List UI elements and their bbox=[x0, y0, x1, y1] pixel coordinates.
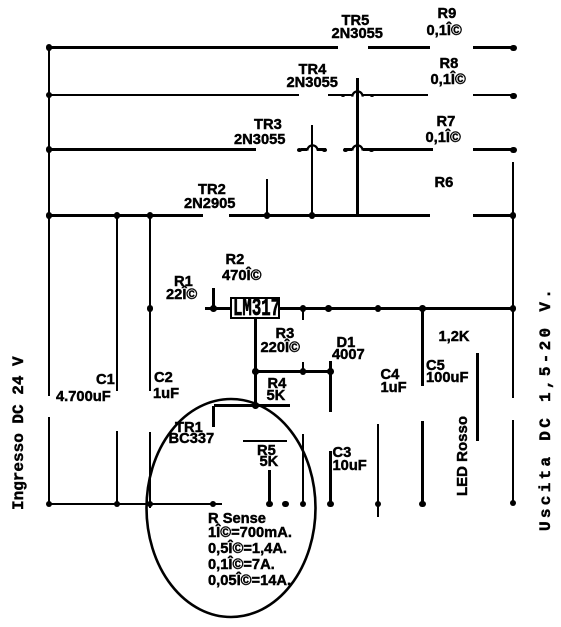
wire rail1 mid (TR5 emitter to R9) bbox=[368, 46, 430, 48]
node C2 / bottom rail bbox=[147, 501, 154, 508]
label TR1 value bbox=[169, 432, 215, 447]
label C1 value bbox=[56, 390, 111, 405]
node rail4 / bus bbox=[46, 212, 53, 219]
wire hop TR4 vertical over rail3 bbox=[352, 148, 362, 151]
label R8 value bbox=[431, 73, 466, 88]
label R sense line3 bbox=[208, 558, 275, 573]
capacitor C1 top lead bbox=[116, 215, 118, 391]
wire output bus lower bbox=[512, 420, 514, 505]
node R sense left bbox=[210, 501, 217, 508]
label R7 bbox=[437, 115, 456, 130]
node R7 terminal bbox=[510, 147, 517, 154]
label D1 bbox=[337, 336, 356, 351]
transistor TR4 vertical bbox=[356, 78, 358, 216]
label R7 value bbox=[426, 131, 461, 146]
wire nub bbox=[369, 148, 374, 152]
label TR3 bbox=[254, 118, 282, 133]
wire rail4 mid (TR2 emitter to R6) bbox=[229, 214, 431, 216]
svg-text:LM317: LM317 bbox=[233, 296, 280, 318]
node output row / bus bbox=[510, 305, 517, 312]
label Ingresso DC 24 V (vertical, input) bbox=[10, 356, 28, 510]
node R sense mid bbox=[282, 501, 289, 508]
node C1 / rail4 bbox=[114, 212, 121, 219]
label Uscita DC 1,5-20 V. (vertical, output) bbox=[538, 286, 554, 531]
node ADJ / row bbox=[252, 368, 259, 375]
node C4 / bottom bbox=[375, 501, 382, 508]
wire rail2 mid (TR4 emitter to R8) bbox=[328, 94, 428, 96]
wire LM317 output row bbox=[280, 307, 514, 309]
node R5 / bottom bbox=[266, 501, 273, 508]
capacitor C2 top lead bbox=[149, 215, 151, 391]
node branch / bottom bbox=[300, 501, 307, 508]
label R4 value bbox=[267, 389, 286, 404]
diode D1 lead bbox=[329, 361, 331, 412]
node TR2 / rail4 bbox=[264, 212, 271, 219]
label TR1 bbox=[175, 421, 203, 436]
label R1 bbox=[174, 275, 193, 290]
label C3 bbox=[333, 446, 352, 461]
label C2 value bbox=[153, 387, 179, 402]
node rail2 / bus bbox=[46, 92, 53, 99]
wire rail3 mid (TR3 emitter to R7) bbox=[344, 148, 434, 150]
wire rail2 left (to TR4 collector) bbox=[48, 94, 299, 96]
node R6 / output bus bbox=[510, 212, 517, 219]
label TR5 bbox=[342, 14, 370, 29]
wire R sense branch bbox=[302, 434, 304, 505]
resistor R8 right lead bbox=[473, 94, 513, 96]
label C3 value bbox=[333, 459, 367, 474]
node R1 / C2 input bbox=[147, 305, 154, 312]
node C3 / bottom bbox=[327, 501, 334, 508]
op-amp U1 LM317 regulator box bbox=[230, 297, 280, 319]
label TR3 value bbox=[234, 133, 285, 148]
wire input bus lower bbox=[48, 417, 50, 506]
wire nub bbox=[297, 148, 302, 152]
capacitor C3 lead bbox=[329, 451, 331, 505]
label TR4 bbox=[299, 63, 327, 78]
label TR2 bbox=[198, 183, 226, 198]
node D1 / output row bbox=[325, 305, 332, 312]
node output bottom bbox=[510, 500, 517, 507]
label R2 value bbox=[222, 269, 261, 284]
wire LM317 ADJ lead bbox=[254, 319, 256, 407]
label R sense line2 bbox=[208, 542, 287, 557]
label R sense title bbox=[208, 512, 266, 527]
resistor R2 lead stub bbox=[212, 288, 214, 310]
wire hop TR4 vertical over rail2 bbox=[352, 93, 362, 96]
node R9 terminal bbox=[510, 45, 517, 52]
label R8 bbox=[440, 57, 459, 72]
label R9 bbox=[438, 7, 457, 22]
label R sense line1 bbox=[208, 526, 292, 541]
label C2 bbox=[154, 371, 173, 386]
highlight ellipse around R sense bbox=[144, 397, 318, 621]
wire rail1 left (from input bus to TR5 collector) bbox=[48, 46, 338, 48]
wire rail3 mid stub bbox=[301, 148, 326, 150]
label C4 bbox=[381, 368, 400, 383]
wire rail3 left (to TR3 collector) bbox=[48, 148, 256, 150]
label C5 bbox=[426, 359, 445, 374]
capacitor C1 bottom lead bbox=[116, 431, 118, 505]
wire nub bbox=[341, 94, 346, 98]
capacitor C5 bottom lead bbox=[421, 421, 423, 506]
label R6 value 1,2K bbox=[439, 330, 470, 345]
node R3 / output row bbox=[300, 305, 307, 312]
resistor R4 row wire bbox=[214, 404, 291, 406]
node bottom-left bbox=[46, 501, 53, 508]
node input top-left bbox=[46, 44, 53, 51]
label LED Rosso (vertical) bbox=[455, 416, 470, 496]
wire input bus upper bbox=[48, 47, 50, 396]
wire bottom rail (R sense left) bbox=[48, 503, 222, 505]
capacitor C4 lead bbox=[377, 424, 379, 517]
transistor TR3 vertical bbox=[311, 125, 313, 216]
label R5 value bbox=[260, 455, 279, 470]
label LM317 bbox=[233, 296, 280, 318]
capacitor C5 top lead bbox=[421, 309, 423, 387]
transistor TR1 base lead bbox=[212, 406, 214, 427]
resistor R5 bottom lead bbox=[268, 470, 270, 505]
node C1 / bottom rail bbox=[114, 501, 121, 508]
label R sense line4 bbox=[208, 574, 291, 589]
node R3 / ADJ row bbox=[300, 368, 307, 375]
node D1 / ADJ row bbox=[327, 368, 334, 375]
wire nub bbox=[370, 94, 375, 98]
label R3 value bbox=[261, 341, 300, 356]
wire nub bbox=[343, 148, 348, 152]
capacitor C2 bottom lead bbox=[149, 432, 151, 508]
node ADJ / R4 row bbox=[252, 402, 259, 409]
node C5 / bottom bbox=[419, 501, 426, 508]
label C1 bbox=[96, 373, 115, 388]
label TR2 value bbox=[184, 197, 235, 212]
node TR3 / rail4 bbox=[309, 212, 316, 219]
wire rail4 left (to TR2 collector) bbox=[48, 214, 203, 216]
resistor R9 right lead bbox=[473, 46, 513, 48]
wire hop TR3 vertical over rail3 bbox=[307, 148, 317, 151]
resistor R1 right lead into regulator bbox=[205, 307, 231, 309]
node C2 / rail4 bbox=[147, 212, 154, 219]
label D1 value bbox=[332, 348, 365, 363]
wire nub bbox=[322, 148, 327, 152]
resistor R5 top bar bbox=[243, 440, 288, 442]
wire ADJ row bbox=[256, 370, 331, 372]
label C4 value bbox=[381, 381, 407, 396]
label R3 bbox=[276, 327, 295, 342]
node rail3 / bus bbox=[46, 146, 53, 153]
label TR4 value bbox=[287, 76, 338, 91]
label R6 bbox=[435, 176, 454, 191]
label R5 bbox=[257, 444, 276, 459]
label C5 value bbox=[426, 371, 468, 386]
resistor R6 right lead bbox=[473, 214, 515, 216]
resistor R3 bottom lead bbox=[302, 362, 304, 373]
node R8 terminal bbox=[510, 93, 517, 100]
resistor R3 top stub bbox=[302, 309, 304, 321]
label R1 value bbox=[166, 288, 197, 303]
node C4 / output row bbox=[375, 305, 382, 312]
label R9 value bbox=[427, 24, 462, 39]
wire output bus upper bbox=[512, 162, 514, 398]
label TR5 value bbox=[332, 27, 383, 42]
label R4 bbox=[268, 377, 287, 392]
resistor R7 right lead bbox=[473, 148, 513, 150]
node R2 / R1 bbox=[210, 305, 217, 312]
node C5 / output row bbox=[419, 305, 426, 312]
label R2 bbox=[226, 253, 245, 268]
transistor TR2 collector lead bbox=[266, 179, 268, 216]
LED Rosso branch wire bbox=[476, 353, 478, 441]
